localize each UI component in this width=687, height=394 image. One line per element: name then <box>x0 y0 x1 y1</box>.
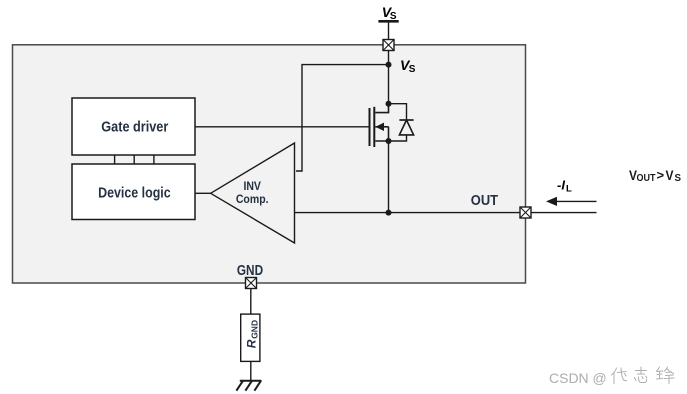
wire VS node to MOSFET drain <box>388 65 390 104</box>
label VOUT > VS <box>629 167 681 184</box>
node source (junction dot) <box>386 138 392 144</box>
bus ticks between gate driver and device logic <box>115 155 154 164</box>
svg-text:R: R <box>244 339 258 348</box>
wire GND pin to resistor <box>250 289 252 315</box>
IC package outline <box>13 45 526 283</box>
svg-text:Comp.: Comp. <box>236 194 269 206</box>
node drain (junction dot) <box>386 101 392 107</box>
wire comparator output to device logic <box>195 192 211 194</box>
diode D1 (body diode) <box>389 104 414 141</box>
label OUT <box>471 193 498 209</box>
pin VS (crossed box) <box>383 40 394 51</box>
svg-text:OUT: OUT <box>471 193 498 209</box>
block Device logic <box>72 164 195 220</box>
svg-text:Gate driver: Gate driver <box>101 119 168 135</box>
wire resistor to ground <box>250 361 252 380</box>
transistor Q1 (power NMOS) <box>370 104 389 147</box>
svg-text:L: L <box>566 184 572 195</box>
label VS (internal node) <box>400 57 416 75</box>
label -IL <box>557 178 572 195</box>
svg-text:S: S <box>390 11 397 22</box>
wire comparator upper input to VS node <box>296 65 389 171</box>
label VS (top supply) <box>382 4 397 22</box>
svg-text:INV: INV <box>243 181 261 193</box>
wire MOSFET source to OUT line <box>388 141 390 213</box>
resistor RGND <box>241 314 260 361</box>
svg-text:S: S <box>675 173 682 184</box>
svg-text:-I: -I <box>557 178 565 193</box>
svg-text:>: > <box>657 168 665 183</box>
svg-text:OUT: OUT <box>637 173 656 184</box>
wire external OUT <box>531 212 597 214</box>
current arrow -IL <box>546 197 597 206</box>
svg-text:V: V <box>666 167 675 183</box>
wire VS pin to VS node <box>388 51 390 65</box>
label GND <box>237 263 263 279</box>
op-amp U1 (INV comparator) <box>211 143 295 243</box>
wire OUT net <box>295 212 521 214</box>
node OUT junction (dot) <box>386 210 392 216</box>
svg-text:Device logic: Device logic <box>98 185 171 201</box>
pin GND (crossed box) <box>246 278 257 289</box>
pin OUT (crossed box) <box>520 207 531 218</box>
node VS (junction dot) <box>386 62 392 68</box>
wire supply bar to VS pin <box>388 21 390 39</box>
svg-text:CSDN @: CSDN @ <box>549 370 607 386</box>
ground <box>236 381 261 391</box>
block Gate driver <box>72 98 195 155</box>
svg-text:GND: GND <box>249 320 259 339</box>
watermark CSDN <box>549 367 674 386</box>
wire gate driver to MOSFET gate <box>195 126 370 128</box>
supply rail bar VS <box>378 20 398 23</box>
svg-text:S: S <box>409 64 416 75</box>
